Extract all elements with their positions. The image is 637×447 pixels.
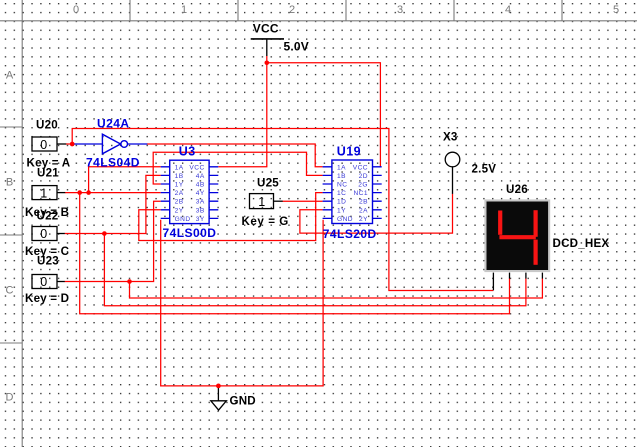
svg-text:C: C [6,285,14,297]
svg-text:D: D [6,392,14,404]
svg-text:GND: GND [175,216,191,223]
svg-text:1: 1 [258,195,265,209]
svg-text:0: 0 [40,138,47,152]
svg-text:U24A: U24A [97,117,129,131]
svg-text:VCC: VCC [253,22,279,36]
svg-text:2: 2 [289,4,295,16]
svg-text:Key = D: Key = D [25,292,69,305]
svg-text:DCD_HEX: DCD_HEX [553,237,610,250]
svg-text:1: 1 [181,4,187,16]
svg-text:U26: U26 [506,183,528,196]
svg-text:1C: 1C [337,190,346,197]
svg-text:1Y: 1Y [337,207,346,214]
svg-text:4A: 4A [196,173,205,180]
svg-text:2B: 2B [359,199,368,206]
svg-text:NC1: NC1 [353,190,368,197]
svg-text:NC: NC [337,182,347,189]
svg-text:2.5V: 2.5V [472,163,497,176]
svg-text:0: 0 [40,275,47,289]
svg-text:74LS04D: 74LS04D [86,156,140,170]
svg-text:3A: 3A [196,199,205,206]
svg-text:2B: 2B [175,199,184,206]
svg-text:1Y: 1Y [175,182,184,189]
svg-text:U20: U20 [36,119,58,132]
svg-text:U25: U25 [257,177,279,190]
svg-text:GND: GND [337,216,353,223]
svg-text:2Y: 2Y [175,207,184,214]
svg-text:Key = G: Key = G [242,215,289,228]
svg-text:VCC: VCC [353,164,368,171]
svg-text:VCC: VCC [189,164,204,171]
svg-text:B: B [6,177,13,189]
svg-text:4B: 4B [196,182,205,189]
svg-text:1: 1 [40,186,47,200]
svg-text:U21: U21 [37,167,59,180]
svg-text:1D: 1D [337,199,346,206]
svg-text:1A: 1A [175,164,184,171]
svg-text:74LS00D: 74LS00D [163,226,217,240]
svg-text:1A: 1A [337,164,346,171]
svg-text:2A: 2A [359,207,368,214]
svg-text:2G: 2G [358,182,368,189]
svg-text:2A: 2A [175,190,184,197]
svg-text:1B: 1B [175,173,184,180]
svg-text:74LS20D: 74LS20D [323,227,377,241]
svg-text:X3: X3 [443,131,458,144]
svg-text:3: 3 [397,4,403,16]
svg-text:4: 4 [505,4,511,16]
svg-text:GND: GND [230,395,256,408]
svg-text:U19: U19 [337,145,361,159]
svg-text:5.0V: 5.0V [284,40,310,54]
svg-text:0: 0 [73,4,79,16]
svg-text:0: 0 [40,227,47,241]
svg-text:3B: 3B [196,207,205,214]
svg-text:U23: U23 [37,255,59,268]
svg-text:2Y: 2Y [359,216,368,223]
svg-text:4Y: 4Y [196,190,205,197]
svg-text:U22: U22 [37,210,59,223]
svg-text:3Y: 3Y [196,216,205,223]
svg-text:2D: 2D [359,173,368,180]
svg-text:U3: U3 [179,145,196,159]
svg-text:5: 5 [613,4,619,16]
svg-text:A: A [6,70,14,82]
svg-text:1B: 1B [337,173,346,180]
